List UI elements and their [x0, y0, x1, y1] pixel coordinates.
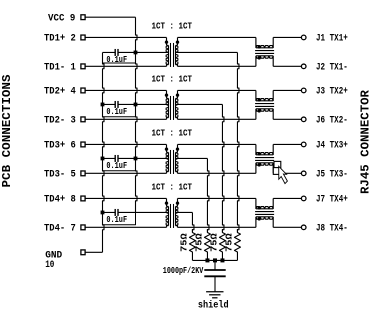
svg-text:J5 TX3-: J5 TX3- [316, 170, 348, 181]
selection handle square 2 [273, 168, 279, 175]
wire T3 secondary top to choke [178, 143, 256, 145]
capacitor C3 0.1uF (bypass in box) [103, 157, 116, 159]
junction C1 right (VCC rail) [134, 51, 138, 55]
transformer T1 primary phase dot [165, 40, 168, 43]
pin J8 (TX4-) [301, 225, 306, 230]
svg-text:J6 TX2-: J6 TX2- [316, 116, 348, 127]
wire TD3+ to transformer [85, 143, 166, 145]
svg-text:TD2- 3: TD2- 3 [44, 115, 76, 126]
wire T2 center-tap drop to resistor (with hops) [222, 104, 224, 232]
choke L2 top dot [258, 98, 261, 101]
wire T2 secondary bottom to choke [178, 118, 256, 120]
svg-text:J3 TX2+: J3 TX2+ [316, 87, 348, 98]
capacitor C1 0.1uF (bypass in box) [103, 51, 116, 53]
svg-text:1CT : 1CT: 1CT : 1CT [152, 182, 193, 193]
wire TD2- to transformer [85, 118, 166, 120]
svg-text:0.1uF: 0.1uF [106, 54, 127, 65]
selection handle square 1 [274, 161, 281, 168]
wire T3 primary center tap [136, 157, 169, 159]
pin J1 (TX1+) [301, 35, 306, 40]
choke L2 bottom winding [255, 109, 257, 120]
transformer T1 secondary phase dot [176, 40, 179, 43]
wire T3 secondary bottom to choke [178, 172, 256, 174]
pin TD2- (pcb pin 3) [81, 117, 85, 122]
wire T2 secondary top to choke [178, 89, 256, 91]
svg-text:75Ω: 75Ω [224, 233, 234, 252]
svg-text:TD3+ 6: TD3+ 6 [44, 141, 76, 152]
svg-text:1CT : 1CT: 1CT : 1CT [152, 128, 193, 139]
wire choke L3 to J- [273, 172, 301, 174]
svg-text:TD1+ 2: TD1+ 2 [44, 34, 76, 45]
capacitor C2 0.1uF (bypass in box) [103, 103, 116, 105]
choke L4 bottom dot [258, 217, 261, 220]
wire choke L2 to J- [273, 118, 301, 120]
pin TD4+ (pcb pin 8) [81, 196, 85, 201]
resistor R3 75 ohm [219, 229, 225, 260]
transformer T4 secondary phase dot [176, 201, 179, 204]
wire T4 secondary bottom to choke [178, 226, 256, 228]
svg-text:J2 TX1-: J2 TX1- [316, 63, 348, 74]
choke L2 bottom dot [258, 109, 261, 112]
wire choke L1 to J+ [273, 36, 301, 38]
wire T3 center-tap drop to resistor (with hops) [207, 158, 209, 232]
pin J4 (TX3+) [301, 142, 306, 147]
junction bus R2 [205, 258, 209, 262]
svg-text:TD3- 5: TD3- 5 [44, 169, 76, 180]
svg-text:1CT : 1CT: 1CT : 1CT [152, 74, 193, 85]
resistor R1 75 ohm [189, 229, 195, 260]
pin TD4- (pcb pin 7) [81, 225, 85, 230]
transformer T2 primary phase dot [165, 93, 168, 96]
wire TD1+ to transformer [85, 36, 166, 38]
svg-text:shield: shield [198, 299, 229, 309]
choke L1 bottom dot [258, 56, 261, 59]
capacitor C4 0.1uF (bypass in box) [103, 211, 116, 213]
svg-text:1CT : 1CT: 1CT : 1CT [152, 21, 193, 32]
svg-text:0.1uF: 0.1uF [106, 160, 127, 171]
choke L4 bottom winding [255, 217, 257, 228]
wire T1 secondary bottom to choke [178, 65, 256, 67]
svg-text:75Ω: 75Ω [209, 233, 219, 252]
ground (earth/shield) [206, 291, 223, 293]
svg-text:0.1uF: 0.1uF [106, 214, 127, 225]
svg-text:75Ω: 75Ω [194, 233, 204, 252]
junction bus R3 [220, 258, 224, 262]
wire choke L4 to J- [273, 226, 301, 228]
wire choke L3 to J+ [273, 143, 301, 145]
choke L4 core [255, 211, 274, 213]
wire T1 primary center tap [136, 51, 169, 53]
svg-text:J1 TX1+: J1 TX1+ [316, 34, 348, 45]
svg-text:J8 TX4-: J8 TX4- [316, 224, 348, 235]
svg-text:TD1- 1: TD1- 1 [44, 62, 76, 73]
svg-text:J4 TX3+: J4 TX3+ [316, 141, 348, 152]
wire T1 secondary center tap [176, 51, 238, 53]
wire choke L1 to J- [273, 65, 301, 67]
wire choke L2 to J+ [273, 89, 301, 91]
mouse cursor arrow [279, 166, 288, 183]
choke L2 (common-mode) top winding [255, 90, 257, 100]
wire capacitor to earth [214, 276, 216, 292]
wire TD4- to transformer [85, 226, 166, 228]
junction C3 right (VCC rail) [134, 157, 138, 161]
resistor R4 75 ohm [234, 229, 240, 260]
transformer T4 primary winding [167, 198, 169, 206]
svg-text:75Ω: 75Ω [179, 233, 189, 252]
wire GND rail (vertical with hops) [103, 52, 105, 252]
pin TD3+ (pcb pin 6) [81, 142, 85, 147]
wire bus to capacitor [214, 260, 216, 270]
svg-text:1000pF/2KV: 1000pF/2KV [163, 266, 204, 276]
choke L1 core [255, 50, 274, 52]
transformer T1 core [170, 43, 172, 67]
transformer T2 primary winding [167, 90, 169, 98]
choke L3 bottom dot [258, 163, 261, 166]
junction C2 right (VCC rail) [134, 103, 138, 107]
svg-text:VCC 9: VCC 9 [48, 13, 75, 24]
wire T1 secondary top to choke [178, 36, 256, 38]
wire choke L4 to J+ [273, 197, 301, 199]
wire T4 primary center tap [136, 211, 169, 213]
wire TD3- to transformer [85, 172, 166, 174]
junction C4 left (GND rail) [101, 211, 105, 215]
svg-text:10: 10 [45, 260, 54, 271]
choke L3 core [255, 157, 274, 159]
wire VCC rail (vertical with hops) [136, 17, 138, 212]
wire T4 secondary top to choke [178, 197, 256, 199]
transformer T4 secondary winding [176, 198, 178, 206]
choke L4 top dot [258, 206, 261, 209]
transformer T3 primary winding [167, 144, 169, 152]
svg-text:TD2+ 4: TD2+ 4 [44, 87, 76, 98]
wire T1 center-tap drop to resistor (with hops) [237, 52, 239, 232]
pin J3 (TX2+) [301, 88, 306, 93]
choke L3 top dot [258, 152, 261, 155]
choke L4 (common-mode) top winding [255, 198, 257, 208]
transformer T2 secondary winding [176, 90, 178, 98]
choke L1 top dot [258, 45, 261, 48]
svg-text:0.1uF: 0.1uF [106, 106, 127, 117]
junction C2 left (GND rail) [101, 103, 105, 107]
transformer T2 core [170, 96, 172, 120]
transformer T2 secondary phase dot [176, 93, 179, 96]
wire resistor bus [192, 259, 237, 261]
pin TD2+ (pcb pin 4) [81, 88, 85, 93]
svg-text:PCB CONNECTIONS: PCB CONNECTIONS [0, 74, 14, 188]
transformer T4 primary phase dot [165, 201, 168, 204]
wire T3 secondary center tap [176, 157, 208, 159]
pin J2 (TX1-) [301, 64, 306, 69]
svg-text:RJ45 CONNECTOR: RJ45 CONNECTOR [358, 89, 372, 194]
wire TD4+ to transformer [85, 197, 166, 199]
choke L3 bottom winding [255, 163, 257, 174]
pin J6 (TX2-) [301, 117, 306, 122]
junction C3 left (GND rail) [101, 157, 105, 161]
pin GND 10 [81, 250, 85, 255]
transformer T1 primary winding [167, 37, 169, 45]
wire T4 center-tap drop to resistor (with hops) [192, 212, 194, 232]
wire T2 secondary center tap [176, 103, 223, 105]
transformer T3 primary phase dot [165, 147, 168, 150]
pin J7 (TX4+) [301, 196, 306, 201]
choke L1 (common-mode) top winding [255, 37, 257, 47]
transformer T3 core [170, 150, 172, 174]
wire T2 primary center tap [136, 103, 169, 105]
pin VCC 9 [81, 15, 85, 20]
capacitor C5 1000pF/2KV [204, 269, 225, 271]
transformer T1 secondary winding [176, 37, 178, 45]
wire T4 secondary center tap [176, 211, 193, 213]
transformer T3 secondary winding [176, 144, 178, 152]
wire TD2+ to transformer [85, 89, 166, 91]
choke L2 core [255, 103, 274, 105]
wire VCC to rail [85, 16, 135, 18]
pin TD1- (pcb pin 1) [81, 64, 85, 69]
wire GND rail to pin [85, 251, 102, 253]
choke L1 bottom winding [255, 56, 257, 67]
junction bus cap tap [213, 258, 217, 262]
choke L3 (common-mode) top winding [255, 144, 257, 154]
wire TD1- to transformer [85, 65, 166, 67]
pin TD3- (pcb pin 5) [81, 171, 85, 176]
resistor R2 75 ohm [204, 229, 210, 260]
svg-text:TD4- 7: TD4- 7 [44, 223, 76, 234]
svg-text:J7 TX4+: J7 TX4+ [316, 195, 348, 206]
pin J5 (TX3-) [301, 171, 306, 176]
transformer T4 core [170, 204, 172, 228]
transformer T3 secondary phase dot [176, 147, 179, 150]
pin TD1+ (pcb pin 2) [81, 35, 85, 40]
svg-text:TD4+ 8: TD4+ 8 [44, 195, 76, 206]
